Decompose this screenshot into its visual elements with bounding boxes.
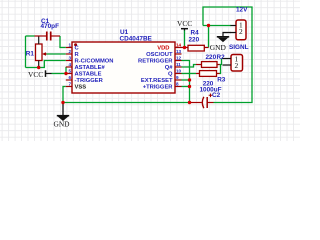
svg-text:1000uF: 1000uF (200, 87, 222, 94)
wire VCC top to pin 14 (184, 30, 186, 48)
wire to J1 pin 1 (203, 25, 231, 27)
power VCC left (28, 70, 52, 79)
wire VCC to pin 5 (52, 73, 66, 75)
svg-text:6: 6 (68, 75, 71, 80)
svg-text:CD4047BE: CD4047BE (120, 36, 153, 43)
IC left pin names (75, 46, 114, 91)
junction node pin9 (188, 78, 191, 81)
IC left pin stubs (66, 48, 72, 87)
svg-text:2: 2 (235, 61, 239, 70)
junction node pin8 (188, 85, 191, 88)
resistor R1 (preset) body (36, 36, 47, 68)
power VCC top (177, 19, 192, 31)
wire R3 to J2 pin 2 (220, 65, 221, 74)
svg-text:8: 8 (176, 81, 179, 86)
svg-text:11: 11 (176, 62, 181, 67)
svg-text:-TRIGGER: -TRIGGER (75, 78, 104, 84)
connector J2 SIGNL (223, 54, 243, 71)
svg-text:VDD: VDD (157, 46, 169, 52)
capacitor C1 (35, 32, 61, 41)
svg-text:13: 13 (176, 49, 182, 54)
svg-text:R1: R1 (26, 51, 35, 58)
svg-text:VCC: VCC (28, 70, 43, 79)
wire top-left from C1 to left vertical (26, 35, 35, 37)
svg-text:7: 7 (68, 81, 71, 86)
wire bottom of R1 to pin 3 (26, 61, 66, 68)
junction node ground left (61, 101, 64, 104)
wire pin 7 VSS to ground (63, 87, 66, 104)
svg-text:10: 10 (176, 68, 182, 73)
svg-text:12: 12 (176, 55, 182, 60)
svg-text:R-C/COMMON: R-C/COMMON (75, 59, 114, 65)
capacitor C2 polarized (190, 94, 214, 109)
svg-text:3: 3 (68, 55, 71, 60)
wire pin 11 to R2 (182, 65, 197, 68)
wire R2 to J2 pin 1 (220, 59, 222, 65)
svg-text:2: 2 (239, 27, 243, 36)
ground top (J1 pin 2) (210, 33, 231, 53)
svg-text:ASTABLE#: ASTABLE# (75, 65, 106, 71)
svg-text:220: 220 (206, 54, 217, 61)
wire pin 12 down to ground bus (182, 61, 190, 103)
svg-text:220: 220 (189, 36, 200, 43)
wire pin 10 to R3 (182, 73, 197, 75)
resistor R3 (196, 71, 220, 77)
svg-text:OSC/OUT: OSC/OUT (146, 52, 173, 58)
IC right pin numbers 14-8 (176, 42, 182, 86)
resistor R4 (188, 45, 209, 51)
svg-text:Q#: Q# (165, 65, 174, 71)
R1 wiper arrow (44, 53, 47, 55)
wire left vertical (25, 36, 27, 68)
wire R4 right to 12V node (208, 26, 210, 48)
svg-text:R3: R3 (217, 77, 226, 84)
junction node pin5 VCC (64, 72, 67, 75)
wire C2 right to 12V loop (203, 7, 252, 103)
junction node VDD/R4 (183, 46, 186, 49)
connector J1 12V (231, 20, 247, 40)
junction node 12V/R4 (207, 24, 210, 27)
wire ground bus bottom (63, 102, 190, 104)
R1 bottom lead (38, 61, 40, 68)
R1 top lead (38, 36, 40, 44)
svg-text:Q: Q (168, 72, 173, 78)
svg-text:EXT.RESET: EXT.RESET (141, 78, 173, 84)
IC right pin names (138, 46, 173, 91)
junction node ground bus C2 (188, 101, 191, 104)
resistor R2 (196, 62, 220, 68)
IC U1 CD4047BE body (72, 42, 175, 93)
svg-text:14: 14 (176, 42, 182, 47)
ground left (54, 104, 71, 129)
svg-text:R2: R2 (217, 54, 226, 61)
svg-text:2: 2 (68, 49, 71, 54)
svg-text:RETRIGGER: RETRIGGER (138, 59, 173, 65)
IC left pin numbers 1-7 (68, 42, 71, 86)
svg-text:VCC: VCC (177, 19, 192, 28)
svg-text:1: 1 (68, 42, 71, 47)
svg-text:+TRIGGER: +TRIGGER (143, 85, 174, 91)
wire C1 right to pin 1 (60, 36, 66, 48)
svg-text:GND: GND (54, 120, 71, 129)
svg-text:GND: GND (210, 43, 227, 52)
svg-text:9: 9 (176, 75, 179, 80)
svg-text:SIGNL: SIGNL (229, 44, 249, 51)
svg-text:470pF: 470pF (41, 23, 60, 30)
svg-text:5: 5 (68, 68, 71, 73)
svg-text:4: 4 (68, 62, 71, 67)
junction node R1 bottom (37, 66, 40, 69)
svg-text:ASTABLE: ASTABLE (75, 72, 102, 78)
IC right pin stubs (175, 48, 188, 87)
wire pin 9 (182, 79, 190, 81)
wire pin 8 (182, 86, 190, 88)
svg-text:VSS: VSS (75, 85, 87, 91)
svg-text:12V: 12V (236, 6, 248, 13)
wire R1 wiper to pin 2 (47, 53, 66, 55)
wire pin 4 to pin 5 (65, 67, 67, 74)
